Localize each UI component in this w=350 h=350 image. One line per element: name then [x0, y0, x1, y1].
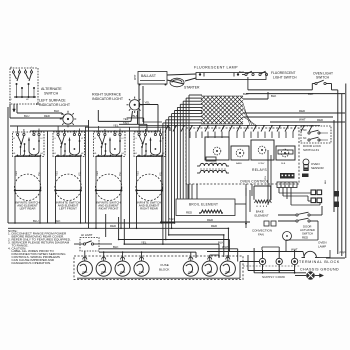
svg-text:WHT: WHT	[222, 245, 229, 249]
svg-text:BLU: BLU	[24, 114, 29, 118]
svg-text:H1: H1	[94, 153, 96, 155]
svg-text:H1: H1	[54, 153, 56, 155]
svg-text:RIGHT SURFACE: RIGHT SURFACE	[92, 93, 122, 97]
svg-text:NO: NO	[303, 129, 307, 132]
svg-text:L1: L1	[54, 138, 56, 140]
svg-text:BROIL ELEMENT: BROIL ELEMENT	[189, 203, 218, 207]
svg-text:WHT: WHT	[299, 118, 306, 122]
svg-text:BLK: BLK	[308, 92, 313, 96]
svg-text:RED: RED	[15, 171, 18, 176]
svg-text:BLK: BLK	[113, 245, 119, 249]
svg-text:RED: RED	[302, 236, 308, 240]
svg-text:CONV: CONV	[258, 163, 265, 165]
svg-text:LEFT REAR: LEFT REAR	[20, 207, 36, 211]
svg-text:RED: RED	[299, 109, 305, 113]
svg-text:BLK: BLK	[271, 94, 276, 98]
svg-text:15A: 15A	[139, 270, 144, 274]
svg-text:TERMINAL BLOCK: TERMINAL BLOCK	[299, 260, 340, 264]
svg-text:BLK: BLK	[133, 114, 139, 118]
svg-text:SWITCH: SWITCH	[44, 92, 59, 96]
svg-text:SWITCH: SWITCH	[316, 75, 330, 79]
svg-text:FAN: FAN	[258, 233, 264, 237]
svg-text:FUSE: FUSE	[161, 263, 169, 267]
svg-text:20A: 20A	[82, 270, 87, 274]
svg-text:BLK: BLK	[218, 240, 224, 244]
svg-text:L2: L2	[81, 138, 83, 140]
svg-text:BAKE: BAKE	[236, 162, 242, 165]
svg-text:RIGHT REAR: RIGHT REAR	[140, 207, 158, 211]
svg-text:DLB: DLB	[281, 163, 286, 165]
svg-text:STARTER: STARTER	[184, 86, 200, 90]
svg-text:SWITCH #1: SWITCH #1	[303, 148, 319, 152]
svg-text:INDICATOR LIGHT: INDICATOR LIGHT	[92, 97, 124, 101]
svg-text:RED: RED	[211, 224, 217, 228]
svg-text:BLK: BLK	[325, 179, 327, 184]
svg-text:SUPPLY CORD: SUPPLY CORD	[262, 275, 286, 279]
svg-text:WHT: WHT	[134, 74, 137, 80]
svg-text:YEL: YEL	[113, 123, 119, 127]
svg-text:BLK: BLK	[54, 109, 59, 113]
svg-text:DANGEROUS OPERATION.: DANGEROUS OPERATION.	[12, 261, 52, 265]
svg-text:YEL: YEL	[159, 171, 162, 176]
svg-text:BALLAST: BALLAST	[141, 74, 156, 78]
svg-text:PRP: PRP	[340, 251, 346, 255]
svg-text:H2: H2	[41, 153, 43, 155]
svg-text:YEL: YEL	[119, 171, 122, 176]
svg-text:L1: L1	[94, 138, 96, 140]
svg-text:YEL: YEL	[141, 240, 147, 244]
svg-text:SENSOR: SENSOR	[311, 166, 325, 170]
svg-text:INDICATOR LIGHT: INDICATOR LIGHT	[39, 103, 71, 107]
svg-text:ALTERNATE: ALTERNATE	[41, 87, 62, 91]
svg-text:20A: 20A	[120, 270, 125, 274]
svg-text:RELAYS: RELAYS	[252, 168, 267, 172]
svg-text:HI LIMIT: HI LIMIT	[81, 233, 93, 237]
svg-text:30A: 30A	[225, 270, 230, 274]
svg-text:NC: NC	[303, 137, 307, 140]
svg-text:20A: 20A	[101, 270, 106, 274]
svg-text:RED: RED	[317, 118, 323, 122]
svg-text:LIGHT SWITCH: LIGHT SWITCH	[273, 75, 297, 79]
svg-text:RED: RED	[96, 171, 99, 176]
svg-text:YEL: YEL	[145, 101, 151, 105]
svg-text:H1: H1	[13, 153, 15, 155]
svg-text:RED: RED	[137, 171, 140, 176]
svg-text:L2: L2	[41, 138, 43, 140]
svg-text:LEFT SURFACE: LEFT SURFACE	[39, 99, 66, 103]
svg-text:YEL: YEL	[38, 171, 41, 176]
svg-text:ELEMENT: ELEMENT	[255, 214, 269, 218]
svg-text:BLK: BLK	[239, 70, 244, 74]
svg-text:LEFT FRONT: LEFT FRONT	[59, 207, 77, 211]
svg-text:20A: 20A	[188, 270, 193, 274]
svg-text:H2: H2	[81, 153, 83, 155]
svg-text:RIGHT FRONT: RIGHT FRONT	[99, 207, 119, 211]
svg-text:CHASSIS GROUND: CHASSIS GROUND	[300, 268, 339, 272]
svg-text:L1: L1	[13, 138, 15, 140]
svg-text:L1: L1	[135, 138, 137, 140]
svg-text:FLUORESCENT LAMP: FLUORESCENT LAMP	[194, 66, 238, 70]
svg-text:YEL: YEL	[78, 171, 81, 176]
svg-text:BLOCK: BLOCK	[159, 268, 170, 272]
svg-text:RED: RED	[44, 114, 50, 118]
svg-text:RED: RED	[56, 171, 59, 176]
svg-text:RED: RED	[207, 218, 213, 222]
svg-text:RED: RED	[186, 211, 192, 215]
svg-text:BLU: BLU	[33, 219, 39, 223]
svg-text:H1: H1	[135, 153, 137, 155]
svg-text:TAN: TAN	[123, 121, 129, 125]
svg-text:L2: L2	[122, 138, 124, 140]
svg-text:H2: H2	[122, 153, 124, 155]
svg-text:RED: RED	[110, 224, 116, 228]
svg-text:LAMP: LAMP	[318, 245, 326, 249]
svg-text:20A: 20A	[207, 270, 212, 274]
